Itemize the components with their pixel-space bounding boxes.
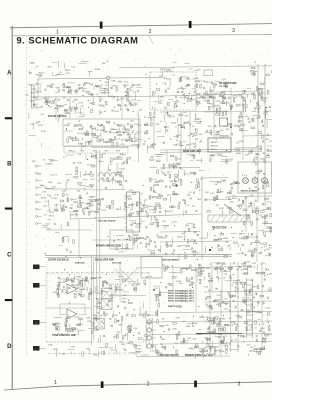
capacitor C129 bbox=[125, 104, 126, 106]
capacitor C102 bbox=[63, 97, 65, 98]
junction bbox=[165, 84, 166, 85]
wire bbox=[122, 131, 124, 135]
svg-text:10K: 10K bbox=[245, 155, 249, 157]
resistor R361 bbox=[219, 329, 223, 331]
resistor R196 bbox=[251, 127, 255, 129]
capacitor C307 bbox=[71, 280, 72, 282]
wire bbox=[154, 107, 156, 115]
wire bbox=[40, 266, 47, 268]
capacitor C354 bbox=[168, 328, 169, 330]
connector CN3 pin 6 bbox=[36, 201, 38, 203]
resistor R440 bbox=[236, 149, 240, 151]
capacitor C406 bbox=[252, 255, 253, 257]
wire bbox=[242, 297, 250, 299]
junction bbox=[254, 345, 255, 346]
resistor R239 bbox=[95, 211, 99, 213]
ground bbox=[248, 291, 250, 294]
capacitor C171 bbox=[260, 94, 261, 96]
IC pin bbox=[140, 222, 142, 224]
junction bbox=[261, 252, 262, 253]
svg-text:10K: 10K bbox=[121, 139, 125, 141]
ladder rung bbox=[247, 334, 253, 336]
svg-text:C204: C204 bbox=[49, 103, 55, 105]
wire bbox=[200, 279, 202, 284]
wire bbox=[137, 279, 139, 286]
capacitor C359 bbox=[251, 303, 252, 305]
wire bbox=[165, 210, 167, 215]
resistor R461 bbox=[110, 285, 112, 289]
wire bbox=[67, 197, 69, 202]
wire bbox=[247, 94, 249, 98]
capacitor C200 bbox=[170, 115, 171, 117]
capacitor C321 bbox=[56, 328, 57, 330]
capacitor C146 bbox=[165, 107, 166, 109]
wire bbox=[73, 201, 76, 203]
junction bbox=[180, 141, 181, 142]
wire bbox=[46, 188, 92, 190]
wire bbox=[267, 201, 272, 203]
capacitor C398 bbox=[226, 333, 228, 334]
junction bbox=[114, 123, 115, 124]
capacitor C386 bbox=[121, 171, 122, 173]
wire bbox=[161, 225, 168, 227]
capacitor C344 bbox=[233, 263, 235, 264]
wire bbox=[91, 329, 99, 331]
resistor R307 bbox=[86, 277, 88, 281]
svg-text:2SC945 2SC458 LG: 2SC945 2SC458 LG bbox=[48, 259, 69, 262]
junction bbox=[207, 319, 208, 320]
resistor R244 bbox=[174, 175, 178, 177]
junction bbox=[202, 316, 203, 317]
wire bbox=[96, 319, 100, 321]
resistor R116 bbox=[106, 101, 108, 105]
resistor R362 bbox=[215, 317, 219, 319]
junction bbox=[173, 347, 174, 348]
junction bbox=[229, 318, 230, 319]
wire bbox=[218, 327, 220, 332]
resistor R112 bbox=[65, 110, 67, 114]
resistor R326 bbox=[115, 286, 117, 290]
wire bbox=[178, 254, 180, 261]
wire bbox=[238, 281, 247, 283]
resistor R407 bbox=[155, 295, 159, 297]
capacitor C431 bbox=[133, 288, 134, 290]
capacitor C424 bbox=[91, 171, 92, 173]
capacitor C320 bbox=[53, 324, 55, 325]
capacitor C374 bbox=[213, 300, 215, 301]
capacitor C331 bbox=[148, 323, 150, 324]
resistor R146 bbox=[261, 90, 263, 94]
wire bbox=[214, 262, 221, 264]
svg-text:C204: C204 bbox=[168, 285, 174, 287]
svg-text:6.8K: 6.8K bbox=[74, 211, 79, 213]
resistor R305 bbox=[90, 289, 92, 293]
junction bbox=[68, 123, 69, 124]
wire bbox=[58, 290, 60, 298]
capacitor C437 bbox=[259, 330, 261, 331]
resistor R289 bbox=[219, 249, 223, 251]
resistor R108 bbox=[74, 107, 78, 109]
junction bbox=[160, 121, 161, 122]
resistor R436 bbox=[150, 187, 152, 191]
wire bbox=[162, 164, 164, 169]
resistor R141 bbox=[242, 98, 246, 100]
svg-text:33K: 33K bbox=[90, 197, 94, 199]
capacitor C177 bbox=[67, 125, 69, 126]
wire bbox=[219, 108, 221, 115]
resistor R210 bbox=[101, 154, 103, 158]
capacitor C165 bbox=[223, 97, 225, 98]
IC pin bbox=[125, 202, 127, 204]
resistor R343 bbox=[229, 267, 233, 269]
capacitor C110 bbox=[63, 83, 64, 85]
capacitor C237 bbox=[103, 198, 104, 200]
wire bbox=[234, 147, 258, 150]
capacitor C179 bbox=[110, 140, 111, 142]
capacitor C393 bbox=[157, 225, 158, 227]
junction bbox=[228, 245, 229, 246]
capacitor C108 bbox=[67, 100, 69, 101]
resistor R315 bbox=[92, 323, 94, 327]
junction bbox=[250, 299, 251, 300]
capacitor C441 bbox=[211, 332, 212, 334]
svg-text:R156: R156 bbox=[123, 85, 129, 87]
resistor R352 bbox=[207, 343, 209, 347]
feedback network wire bbox=[60, 279, 87, 290]
capacitor C380 bbox=[123, 161, 124, 163]
wire bbox=[160, 312, 272, 313]
capacitor C243 bbox=[163, 168, 165, 169]
wire bbox=[88, 202, 93, 204]
junction bbox=[261, 247, 262, 248]
wire bbox=[99, 159, 101, 166]
junction bbox=[132, 132, 133, 133]
wire bbox=[114, 289, 123, 291]
wire bbox=[181, 76, 187, 78]
capacitor C232 bbox=[84, 213, 85, 215]
capacitor C317 bbox=[92, 331, 93, 333]
capacitor C286 bbox=[270, 254, 271, 256]
frame left border (dashed) bbox=[25, 36, 27, 356]
resistor R308 bbox=[75, 294, 77, 298]
svg-text:55K: 55K bbox=[186, 145, 190, 147]
wire bbox=[151, 205, 159, 207]
wire bbox=[81, 280, 88, 282]
resistor R294 bbox=[116, 246, 118, 250]
resistor R161 bbox=[131, 125, 133, 129]
capacitor C302 bbox=[256, 101, 261, 113]
resistor R225 bbox=[63, 193, 65, 197]
wire bbox=[204, 111, 243, 114]
wire bbox=[271, 226, 273, 229]
svg-text:55K: 55K bbox=[199, 134, 203, 136]
capacitor C188 bbox=[153, 143, 154, 145]
wire bbox=[214, 329, 216, 335]
wire bbox=[186, 323, 194, 325]
wire bbox=[100, 160, 104, 162]
resistor R471 bbox=[245, 292, 247, 296]
svg-text:2SC: 2SC bbox=[136, 202, 141, 204]
wire bbox=[222, 210, 224, 218]
wire bbox=[172, 238, 174, 245]
junction bbox=[125, 285, 126, 286]
junction bbox=[110, 131, 111, 132]
svg-text:C204: C204 bbox=[51, 198, 57, 200]
wire bbox=[99, 335, 101, 342]
resistor R476 bbox=[204, 350, 208, 352]
resistor R439 bbox=[155, 184, 159, 186]
wire bbox=[196, 159, 203, 161]
resistor R287 bbox=[218, 238, 222, 240]
junction bbox=[97, 300, 98, 301]
capacitor C334 bbox=[117, 320, 119, 321]
wire bbox=[174, 272, 180, 274]
wire bbox=[100, 200, 102, 207]
wire bbox=[267, 145, 273, 147]
svg-text:10K: 10K bbox=[154, 219, 158, 221]
capacitor C217 bbox=[239, 125, 240, 127]
IC pin bbox=[140, 202, 142, 204]
capacitor C324 bbox=[146, 311, 147, 313]
capacitor C218 bbox=[258, 116, 260, 117]
wire bbox=[184, 173, 189, 175]
resistor R228 bbox=[78, 206, 82, 208]
wire bbox=[67, 315, 70, 317]
wire bbox=[54, 316, 62, 318]
resistor R334 bbox=[135, 288, 137, 292]
resistor R183 bbox=[210, 130, 212, 134]
wire bbox=[132, 237, 138, 239]
wire bbox=[201, 158, 203, 163]
capacitor C348 bbox=[164, 347, 165, 349]
wire bbox=[157, 135, 165, 137]
junction bbox=[153, 289, 155, 291]
capacitor C158 bbox=[221, 95, 223, 96]
capacitor C141 bbox=[177, 91, 179, 92]
resistor R375 bbox=[244, 322, 248, 324]
svg-text:C115: C115 bbox=[238, 141, 244, 143]
wire bbox=[104, 173, 106, 178]
capacitor C426 bbox=[62, 286, 65, 288]
resistor R179 bbox=[145, 124, 149, 126]
wire bbox=[265, 255, 270, 257]
wire bbox=[237, 262, 239, 352]
resistor R178 bbox=[146, 130, 148, 134]
resistor R158 bbox=[137, 144, 139, 148]
resistor R240 bbox=[169, 174, 171, 178]
capacitor C303 bbox=[263, 107, 268, 119]
resistor R125 bbox=[196, 84, 198, 88]
capacitor C314 bbox=[73, 280, 74, 282]
resistor R162 bbox=[103, 127, 105, 131]
resistor R340 bbox=[220, 268, 224, 270]
wire bbox=[169, 271, 175, 273]
resistor R150 bbox=[67, 139, 69, 143]
wire bbox=[225, 280, 233, 282]
junction bbox=[254, 248, 255, 249]
junction bbox=[100, 133, 101, 134]
junction bbox=[41, 106, 42, 107]
svg-text:B: B bbox=[7, 162, 12, 168]
capacitor C105 bbox=[83, 85, 85, 86]
resistor R335 bbox=[144, 314, 146, 318]
TUNER jack bbox=[33, 283, 40, 288]
junction bbox=[251, 234, 252, 235]
capacitor C282 bbox=[194, 251, 196, 252]
junction bbox=[268, 269, 269, 270]
junction bbox=[112, 297, 113, 298]
svg-text:R201: R201 bbox=[236, 153, 242, 155]
wire bbox=[270, 228, 277, 230]
resistor R105 bbox=[69, 88, 71, 92]
capacitor C238 bbox=[159, 212, 161, 213]
resistor R107 bbox=[46, 97, 50, 99]
capacitor C361 bbox=[228, 292, 229, 294]
capacitor C302 bbox=[128, 235, 129, 237]
capacitor C325 bbox=[114, 292, 116, 293]
wire bbox=[53, 324, 60, 326]
wire bbox=[246, 267, 248, 274]
connector CN3 pin 8 bbox=[36, 215, 38, 217]
wire bbox=[89, 196, 96, 198]
wire bbox=[53, 322, 61, 324]
wire bbox=[55, 91, 59, 93]
wire bbox=[38, 77, 108, 80]
resistor R448 bbox=[209, 280, 213, 282]
capacitor C225 bbox=[269, 106, 270, 108]
wire bbox=[48, 101, 51, 103]
wire bbox=[220, 188, 222, 193]
resistor R277 bbox=[187, 240, 189, 244]
wire bbox=[150, 334, 272, 335]
junction bbox=[127, 134, 128, 135]
capacitor C136 bbox=[165, 91, 167, 92]
wire bbox=[183, 249, 191, 251]
junction bbox=[90, 125, 91, 126]
wire bbox=[119, 98, 123, 100]
resistor R149 bbox=[117, 143, 119, 147]
wire bbox=[58, 282, 66, 284]
wire bbox=[156, 156, 162, 158]
resistor R472 bbox=[243, 284, 245, 288]
wire bbox=[91, 318, 97, 320]
wire bbox=[67, 328, 69, 334]
resistor R449 bbox=[78, 183, 82, 185]
resistor R202 bbox=[240, 113, 242, 117]
wire bbox=[111, 314, 113, 318]
capacitor C413 bbox=[252, 150, 253, 152]
resistor R213 bbox=[150, 159, 154, 161]
wire bbox=[168, 245, 173, 247]
junction bbox=[46, 102, 47, 103]
resistor R212 bbox=[114, 158, 118, 160]
resistor R454 bbox=[91, 166, 95, 168]
junction bbox=[84, 83, 85, 84]
capacitor C357 bbox=[269, 329, 270, 331]
wire bbox=[224, 94, 226, 100]
svg-text:C: C bbox=[7, 253, 12, 259]
svg-text:6.8K: 6.8K bbox=[197, 280, 202, 282]
resistor R111 bbox=[63, 84, 65, 88]
junction bbox=[95, 85, 96, 86]
wire bbox=[172, 166, 174, 170]
svg-text:AN7062: AN7062 bbox=[211, 145, 219, 148]
wire bbox=[222, 270, 231, 272]
resistor R152 bbox=[126, 139, 130, 141]
connector CN3 pin 9 bbox=[36, 223, 38, 225]
junction bbox=[217, 319, 218, 320]
resistor R219 bbox=[170, 155, 174, 157]
pointer line bbox=[224, 204, 241, 216]
svg-text:4.7K: 4.7K bbox=[55, 194, 60, 196]
svg-text:6.8K: 6.8K bbox=[172, 328, 177, 330]
capacitor C259 bbox=[169, 186, 170, 188]
wire bbox=[85, 208, 91, 210]
wire bbox=[248, 236, 257, 238]
wire bbox=[141, 354, 149, 356]
wire bbox=[119, 262, 121, 300]
frame top border bbox=[12, 35, 272, 36]
svg-text:3: 3 bbox=[238, 381, 241, 387]
capacitor C126 bbox=[137, 91, 139, 92]
wire bbox=[189, 112, 191, 150]
wire bbox=[78, 330, 80, 335]
wire bbox=[135, 283, 137, 289]
wire bbox=[40, 284, 47, 286]
svg-text:R156: R156 bbox=[41, 198, 47, 200]
resistor R382 bbox=[210, 305, 212, 309]
svg-text:C115: C115 bbox=[114, 111, 120, 113]
wire bbox=[109, 132, 117, 134]
resistor R268 bbox=[228, 207, 232, 209]
capacitor C293 bbox=[155, 245, 156, 247]
capacitor C272 bbox=[255, 200, 256, 202]
wire bbox=[213, 88, 215, 138]
wire bbox=[68, 324, 70, 331]
wire bbox=[121, 243, 123, 248]
svg-text:55K: 55K bbox=[126, 100, 130, 102]
capacitor C197 bbox=[144, 125, 146, 126]
capacitor C127 bbox=[129, 102, 130, 104]
wire bbox=[111, 177, 113, 183]
resistor R410 bbox=[157, 294, 161, 296]
capacitor C139 bbox=[175, 96, 176, 98]
resistor R115 bbox=[116, 88, 118, 92]
resistor R217 bbox=[211, 154, 215, 156]
resistor R267 bbox=[217, 189, 219, 193]
wire bbox=[204, 276, 206, 280]
resistor R168 bbox=[112, 143, 114, 147]
junction bbox=[184, 103, 185, 104]
supply bus lower bbox=[45, 256, 232, 257]
svg-text:C115: C115 bbox=[228, 159, 234, 161]
wire bbox=[247, 87, 251, 89]
wire bbox=[247, 195, 251, 197]
capacitor C184 bbox=[126, 140, 128, 141]
resistor R413 bbox=[106, 343, 108, 347]
resistor R238 bbox=[109, 205, 111, 209]
svg-text:10K: 10K bbox=[117, 105, 121, 107]
wire bbox=[84, 142, 86, 146]
resistor R437 bbox=[155, 181, 159, 183]
capacitor C414 bbox=[250, 151, 252, 152]
resistor R180 bbox=[150, 112, 152, 116]
resistor R431 bbox=[157, 170, 159, 174]
resistor R344 bbox=[164, 268, 166, 272]
capacitor C128 bbox=[100, 112, 102, 113]
svg-text:120: 120 bbox=[269, 141, 272, 143]
junction bbox=[189, 93, 190, 94]
